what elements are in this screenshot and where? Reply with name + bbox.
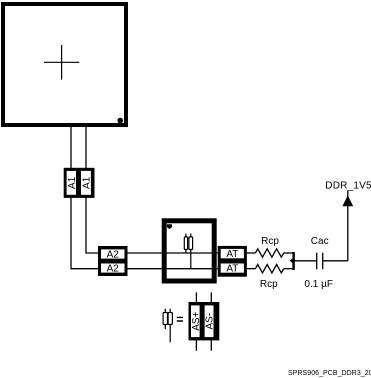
svg-text:Cac: Cac [311, 236, 329, 247]
svg-text:Rcp: Rcp [261, 236, 279, 247]
svg-text:A1: A1 [81, 176, 92, 189]
svg-text:DDR_1V5: DDR_1V5 [325, 181, 371, 192]
svg-text:AT: AT [226, 249, 238, 260]
svg-text:A2: A2 [107, 264, 120, 275]
svg-text:AT: AT [226, 264, 238, 275]
svg-text:Rcp: Rcp [260, 279, 278, 290]
svg-text:A1: A1 [67, 176, 78, 189]
svg-text:AS+: AS+ [191, 311, 202, 330]
svg-text:SPRS906_PCB_DDR3_20: SPRS906_PCB_DDR3_20 [288, 370, 371, 377]
svg-text:A2: A2 [107, 250, 120, 261]
svg-text:AS-: AS- [205, 313, 216, 330]
svg-text:0.1 µF: 0.1 µF [304, 279, 333, 290]
